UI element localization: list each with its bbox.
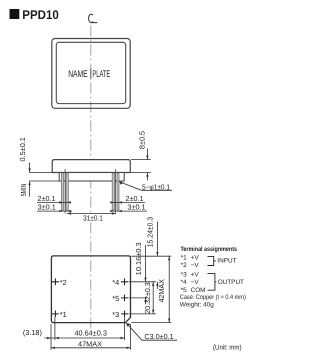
svg-text:+V: +V bbox=[191, 255, 200, 262]
svg-text:*1: *1 bbox=[181, 255, 187, 262]
svg-text:−V: −V bbox=[191, 262, 200, 269]
svg-text:0.5±0.1: 0.5±0.1 bbox=[18, 137, 27, 161]
svg-text:*3: *3 bbox=[181, 272, 187, 279]
svg-text:−V: −V bbox=[191, 279, 200, 286]
svg-text:*4: *4 bbox=[112, 278, 119, 287]
svg-text:3±0.1: 3±0.1 bbox=[38, 203, 56, 212]
svg-text:31±0.1: 31±0.1 bbox=[83, 213, 103, 222]
svg-text:*5: *5 bbox=[112, 294, 119, 303]
svg-text:15.24±0.3: 15.24±0.3 bbox=[146, 217, 155, 248]
svg-text:2±0.1: 2±0.1 bbox=[37, 194, 55, 203]
svg-text:Case: Copper (t = 0.4 mm): Case: Copper (t = 0.4 mm) bbox=[180, 294, 246, 301]
svg-text:20.32±0.3: 20.32±0.3 bbox=[143, 282, 152, 314]
svg-text:+V: +V bbox=[191, 272, 200, 279]
svg-text:3±0.1: 3±0.1 bbox=[127, 203, 145, 212]
svg-text:PLATE: PLATE bbox=[92, 69, 110, 80]
svg-text:NAME: NAME bbox=[68, 69, 88, 80]
svg-text:COM: COM bbox=[191, 287, 206, 294]
svg-text:*2: *2 bbox=[181, 262, 187, 269]
svg-text:C3.0±0.1: C3.0±0.1 bbox=[144, 332, 173, 341]
svg-text:*4: *4 bbox=[181, 279, 187, 286]
svg-text:*5: *5 bbox=[181, 287, 187, 294]
svg-text:40.64±0.3: 40.64±0.3 bbox=[74, 328, 106, 337]
svg-text:*2: *2 bbox=[60, 278, 67, 287]
svg-text:OUTPUT: OUTPUT bbox=[218, 279, 244, 286]
svg-text:(3.18): (3.18) bbox=[23, 328, 42, 337]
svg-text:*3: *3 bbox=[112, 310, 119, 319]
svg-text:(Unit: mm): (Unit: mm) bbox=[213, 344, 242, 352]
svg-text:42MAX: 42MAX bbox=[157, 279, 166, 303]
svg-text:10.16±0.3: 10.16±0.3 bbox=[134, 242, 143, 275]
svg-text:Terminal assignments: Terminal assignments bbox=[181, 246, 238, 253]
svg-text:*1: *1 bbox=[60, 310, 67, 319]
svg-text:INPUT: INPUT bbox=[217, 257, 236, 264]
svg-text:2±0.1: 2±0.1 bbox=[125, 194, 143, 203]
svg-text:47MAX: 47MAX bbox=[78, 339, 102, 348]
svg-text:PPD10: PPD10 bbox=[22, 8, 59, 22]
svg-text:8±0.5: 8±0.5 bbox=[137, 131, 146, 149]
svg-text:5MIN: 5MIN bbox=[19, 184, 28, 197]
svg-text:Weight: 40g: Weight: 40g bbox=[180, 301, 214, 308]
svg-text:5−φ1±0.1: 5−φ1±0.1 bbox=[142, 182, 170, 191]
